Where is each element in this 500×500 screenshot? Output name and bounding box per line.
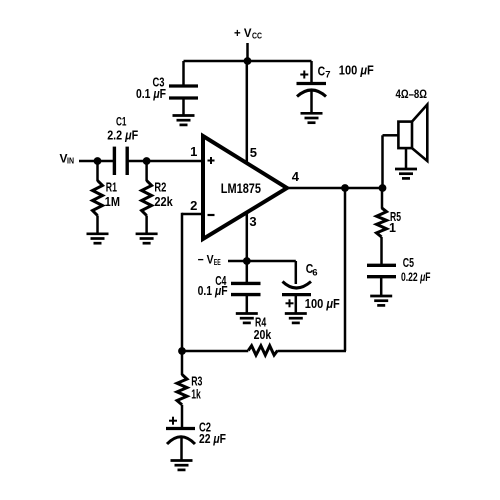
wire speaker ground stem [405,148,408,169]
svg-text:1: 1 [190,144,197,159]
label C2 [199,421,211,435]
label speaker impedance 4ohm-8ohm [396,87,428,101]
svg-text:6: 6 [312,267,317,278]
speaker LS1 [398,105,427,162]
svg-text:0.1 μF: 0.1 μF [136,87,166,101]
op-amp + input marker [208,157,215,164]
svg-text:R1: R1 [106,181,117,195]
svg-text:22k: 22k [154,195,172,209]
resistor R3 [177,375,187,405]
svg-text:R2: R2 [154,181,166,195]
ground (R1) [87,234,109,243]
wire input VIN to C1 [79,160,113,163]
wire R2 top [145,161,148,181]
svg-text:LM1875: LM1875 [221,181,262,196]
svg-text:100 μF: 100 μF [305,297,340,311]
wire feedback riser [344,188,347,351]
value 1k (R3) [191,387,201,401]
junction input node A [94,157,102,165]
junction -VEE node [243,257,251,265]
capacitor C7 (electrolytic) [297,84,327,114]
label C5 [403,256,414,270]
svg-text:1: 1 [389,221,396,235]
value 0.1 uF (C3) [136,87,166,101]
capacitor C1 [114,147,127,175]
value 2.2 uF (C1) [107,129,138,143]
wire R2 bottom [145,216,148,234]
label C1 [116,114,127,128]
svg-text:C5: C5 [403,256,414,270]
svg-text:4Ω–8Ω: 4Ω–8Ω [396,87,428,101]
wire R1 top [96,161,99,181]
value 1 (R5) [389,221,396,235]
svg-text:2.2 μF: 2.2 μF [107,129,138,143]
capacitor C2 (electrolytic) [166,429,195,461]
wire C1 to pin 1 [128,160,203,163]
pin number 3 [249,214,256,229]
capacitor C4 [231,283,261,313]
ground (C2) [171,461,193,470]
label LM1875 [221,181,262,196]
svg-text:5: 5 [250,145,257,160]
junction node B (C1/R2/pin1) [143,157,151,165]
wire R5 to C5 [380,237,383,265]
svg-text:22 μF: 22 μF [199,432,226,446]
node VIN label [60,151,75,165]
capacitor C3 [169,86,198,116]
value 1M (R1) [105,195,120,209]
label R1 [106,181,117,195]
wire R3 to C2 [181,405,184,429]
wire pin 3 drop to -VEE node [246,210,249,283]
ground (speaker) [395,169,417,178]
svg-text:3: 3 [249,214,256,229]
value 100 uF (C6) [305,297,340,311]
wire feedback rail left [182,350,248,353]
ground (C6) [285,314,307,323]
wire speaker to output [383,135,399,188]
ground (C7) [301,113,323,122]
label R2 [154,181,166,195]
ground (C5) [370,296,392,305]
svg-text:IN: IN [67,155,74,165]
polarity + (C2) [169,417,177,425]
op-amp - input marker [208,214,215,216]
svg-text:1M: 1M [105,195,120,209]
junction output/speaker/R5 [379,184,387,192]
ground (C3) [173,116,195,125]
ground (C4) [236,314,258,323]
wire C6 drop [295,261,298,284]
value 0.22 uF (C5) [401,270,431,284]
value 0.1 uF (C4) [198,284,228,298]
junction VCC node [244,57,252,65]
svg-text:0.1 μF: 0.1 μF [198,284,228,298]
wire C3 drop [182,61,185,86]
pin number 2 [190,198,197,213]
wire R3 top [181,351,184,375]
polarity + (C6) [286,299,294,307]
wire pin 5 to VCC [246,61,249,166]
wire R5 top [381,188,384,208]
wire pin 2 to feedback node [182,213,203,351]
capacitor C6 (electrolytic) [282,282,311,314]
junction output/feedback [341,184,349,192]
svg-text:7: 7 [325,69,330,80]
svg-text:4: 4 [292,169,300,184]
op-amp U1 LM1875 [203,136,287,239]
wire -VEE label stub [228,260,247,263]
node +VCC label [234,26,262,40]
value 100 uF (C7) [339,63,374,77]
svg-text:EE: EE [214,257,221,267]
pin number 4 [292,169,300,184]
svg-text:− V: − V [198,253,214,267]
label R4 [255,315,266,329]
svg-text:CC: CC [252,30,262,40]
label C4 [215,274,226,288]
resistor R5 [377,208,387,237]
wire VCC stem [246,43,249,61]
wire C7 drop [310,61,313,84]
resistor R1 [93,181,103,216]
wire R1 bottom [96,216,99,234]
node -VEE label [198,253,221,267]
resistor R2 [142,181,152,216]
value 22k (R2) [154,195,172,209]
wire -VEE rail right [247,260,296,263]
svg-text:1k: 1k [191,387,201,401]
label R5 [390,210,401,224]
value 22 uF (C2) [199,432,226,446]
label C6 [306,262,318,278]
svg-text:20k: 20k [254,328,272,342]
polarity + (C7) [300,71,308,79]
svg-text:+ V: + V [234,26,252,40]
capacitor C5 [367,265,396,296]
label C7 [318,65,331,81]
svg-text:100 μF: 100 μF [339,63,374,77]
label C3 [153,76,165,90]
svg-text:C: C [318,65,326,79]
pin number 1 [190,144,197,159]
svg-text:0.22 μF: 0.22 μF [401,270,431,284]
svg-text:C1: C1 [116,114,127,128]
svg-text:2: 2 [190,198,197,213]
value 20k (R4) [254,328,272,342]
resistor R4 [248,346,277,355]
junction feedback/R3 [178,347,186,355]
label R3 [191,375,202,389]
wire output pin 4 [287,187,384,190]
ground (R2) [136,234,158,243]
pin number 5 [250,145,257,160]
wire feedback rail right [278,350,347,353]
wire top supply rail [184,60,312,63]
